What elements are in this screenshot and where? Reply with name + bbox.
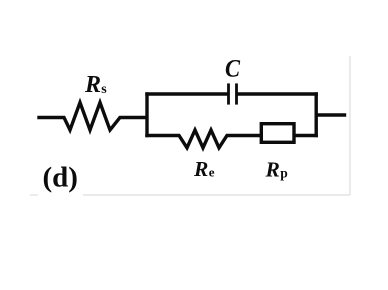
svg-text:C: C xyxy=(225,55,241,82)
svg-text:e: e xyxy=(209,165,215,180)
svg-text:R: R xyxy=(265,158,280,182)
svg-text:R: R xyxy=(193,157,208,181)
svg-text:p: p xyxy=(280,166,288,181)
svg-text:(d): (d) xyxy=(43,162,78,194)
svg-text:R: R xyxy=(84,72,101,98)
svg-text:s: s xyxy=(101,82,107,97)
